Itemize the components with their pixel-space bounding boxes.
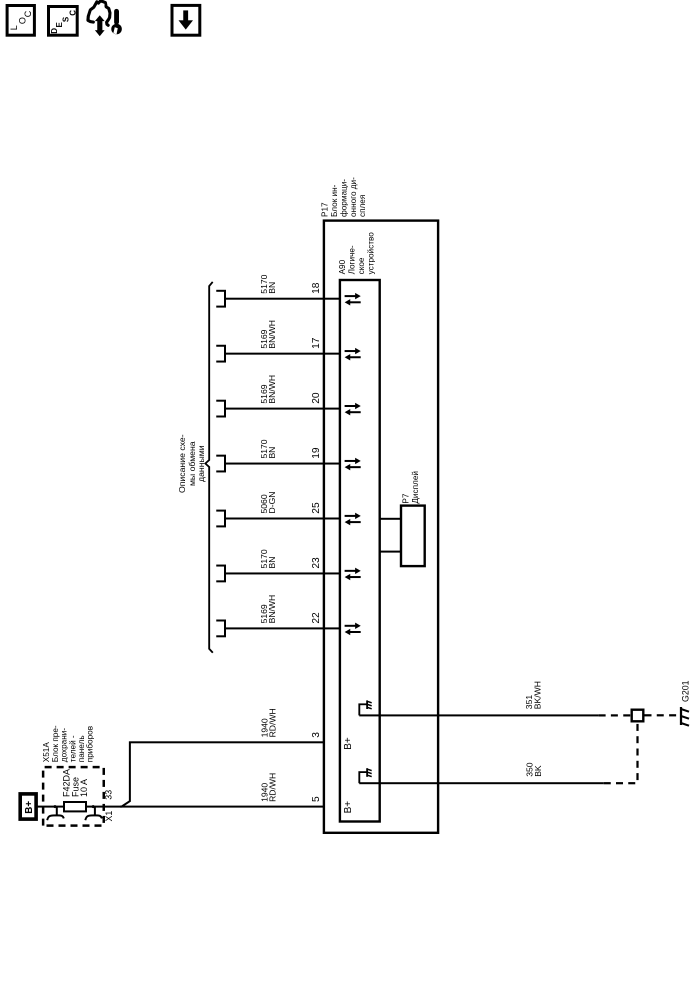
off-page connector pin 23 xyxy=(216,566,225,582)
label 351 BK/WH xyxy=(524,681,543,709)
wire 5060 D-GN pin 25 xyxy=(225,518,340,520)
wire 5169 BN/WH pin 17 xyxy=(225,353,340,355)
wire 351 BK/WH solid xyxy=(359,714,598,716)
label 1940 RD/WH pin3 xyxy=(259,708,277,737)
svg-text:BN/WH: BN/WH xyxy=(267,320,277,349)
icon LOC box xyxy=(7,6,34,36)
svg-text:33: 33 xyxy=(103,790,113,800)
wire 5170 BN pin 19 xyxy=(225,463,340,465)
label 5170 BN xyxy=(259,274,277,293)
svg-text:X1: X1 xyxy=(104,811,114,822)
connector clip upper xyxy=(47,805,64,820)
svg-text:формаци-: формаци- xyxy=(339,179,348,217)
wire 350 BK solid xyxy=(359,782,603,784)
bidirectional arrows pin 20 xyxy=(345,403,361,416)
svg-text:BK/WH: BK/WH xyxy=(532,681,542,709)
svg-text:RD/WH: RD/WH xyxy=(268,773,278,802)
svg-text:C: C xyxy=(23,10,33,17)
label P7 Дисплей xyxy=(402,471,420,504)
off-page connector pin 20 xyxy=(216,401,225,417)
off-page connector pin 22 xyxy=(216,621,225,637)
svg-text:дохрани-: дохрани- xyxy=(60,728,69,763)
svg-text:A90: A90 xyxy=(338,259,347,274)
svg-text:онного ди-: онного ди- xyxy=(349,177,358,217)
svg-text:BN/WH: BN/WH xyxy=(267,375,277,404)
label 350 BK xyxy=(525,762,544,777)
fuse block X51A dashed box xyxy=(43,767,104,826)
svg-text:25: 25 xyxy=(311,502,322,514)
label Описание схемы обмена данными xyxy=(177,434,206,493)
off-page connector pin 25 xyxy=(216,511,225,527)
svg-text:10 A: 10 A xyxy=(79,779,89,797)
label P17 Блок информационного дисплея xyxy=(321,177,368,217)
svg-text:O: O xyxy=(17,17,27,24)
ground G201 symbol xyxy=(681,707,689,726)
wire 351 BK/WH dashed xyxy=(599,714,631,716)
svg-text:17: 17 xyxy=(311,337,322,349)
svg-text:P7: P7 xyxy=(402,493,411,503)
bidirectional arrows pin 19 xyxy=(345,458,361,471)
svg-text:ское: ское xyxy=(357,257,366,274)
wire 350 BK dashed xyxy=(604,723,638,784)
wire 5169 BN/WH pin 20 xyxy=(225,408,340,410)
B+ source box xyxy=(20,794,36,819)
wire 5169 BN/WH pin 22 xyxy=(225,627,340,629)
svg-text:19: 19 xyxy=(311,447,322,459)
icon vehicle service xyxy=(88,1,122,36)
brace data-link group xyxy=(205,282,213,653)
off-page connector pin 18 xyxy=(216,291,225,307)
svg-text:P17: P17 xyxy=(321,202,330,217)
splice node xyxy=(632,710,644,722)
svg-text:Дисплей: Дисплей xyxy=(411,471,420,504)
component box P7 xyxy=(401,506,425,566)
bidirectional arrows pin 25 xyxy=(345,513,361,526)
svg-text:телей -: телей - xyxy=(68,735,77,762)
wire node to G201 dashed xyxy=(645,714,680,716)
label F42DA Fuse 10A xyxy=(62,769,89,797)
svg-text:B+: B+ xyxy=(24,801,35,814)
fuse F42DA xyxy=(64,802,86,811)
svg-text:Логиче-: Логиче- xyxy=(348,245,357,274)
svg-text:Блок пре-: Блок пре- xyxy=(51,725,60,762)
svg-text:BK: BK xyxy=(533,765,543,777)
label 5169 BN/WH xyxy=(259,375,277,404)
svg-text:Блок ин-: Блок ин- xyxy=(330,184,339,217)
svg-text:B+: B+ xyxy=(343,801,354,814)
label X51A Блок предохранителей - панель приборов xyxy=(42,725,94,762)
off-page connector pin 19 xyxy=(216,456,225,472)
svg-text:C: C xyxy=(68,10,77,16)
wire 1940 RD/WH to pin 5 xyxy=(120,806,324,808)
wire fuse to X1 pin 33 xyxy=(87,806,123,808)
wire A90 to P7 left xyxy=(380,551,401,553)
wire branch to pin 3 xyxy=(122,742,324,806)
svg-text:сплея: сплея xyxy=(358,195,367,217)
label 1940 RD/WH pin5 xyxy=(259,773,277,802)
bidirectional arrows pin 18 xyxy=(345,293,361,306)
svg-text:23: 23 xyxy=(311,557,322,569)
label 5169 BN/WH xyxy=(259,320,277,349)
off-page connector pin 17 xyxy=(216,346,225,362)
svg-text:20: 20 xyxy=(311,392,322,404)
svg-text:BN/WH: BN/WH xyxy=(267,595,277,624)
bidirectional arrows pin 23 xyxy=(345,568,361,581)
internal ground stub pin3 side xyxy=(359,700,371,715)
svg-text:BN: BN xyxy=(267,447,277,459)
svg-text:5: 5 xyxy=(311,796,322,802)
svg-text:Описание схе-: Описание схе- xyxy=(177,434,187,493)
bidirectional arrows pin 17 xyxy=(345,348,361,361)
svg-text:G201: G201 xyxy=(681,680,691,702)
label 5170 BN xyxy=(259,549,277,568)
internal ground stub pin5 side xyxy=(359,768,371,783)
label 5169 BN/WH xyxy=(259,595,277,624)
svg-text:L: L xyxy=(9,25,19,30)
svg-text:панель: панель xyxy=(77,735,86,762)
svg-text:BN: BN xyxy=(267,282,277,294)
wire A90 to P7 right xyxy=(380,518,401,520)
wire B+ to fuse xyxy=(36,806,63,808)
label 5060 D-GN xyxy=(259,492,277,514)
label A90 Логическое устройство xyxy=(338,232,375,275)
svg-text:S: S xyxy=(61,16,70,22)
svg-text:данными: данными xyxy=(196,445,206,482)
svg-text:BN: BN xyxy=(267,556,277,568)
svg-text:RD/WH: RD/WH xyxy=(268,708,278,737)
bidirectional arrows pin 22 xyxy=(345,623,361,636)
icon down-arrow box xyxy=(172,5,200,35)
svg-text:D: D xyxy=(50,28,59,34)
svg-text:22: 22 xyxy=(311,612,322,624)
svg-text:E: E xyxy=(55,22,64,28)
label 5170 BN xyxy=(259,439,277,458)
svg-text:3: 3 xyxy=(311,732,322,738)
connector clip lower xyxy=(85,805,102,820)
component box A90 xyxy=(340,280,380,822)
svg-text:приборов: приборов xyxy=(86,726,95,762)
svg-text:устройство: устройство xyxy=(366,232,375,275)
svg-text:D-GN: D-GN xyxy=(267,492,277,514)
wire 5170 BN pin 23 xyxy=(225,572,340,574)
component box P17 xyxy=(324,221,438,833)
wire 5170 BN pin 18 xyxy=(225,298,340,300)
icon DESC box xyxy=(49,7,78,36)
svg-text:18: 18 xyxy=(311,282,322,294)
svg-text:B+: B+ xyxy=(343,737,354,750)
svg-text:X51A: X51A xyxy=(42,742,51,763)
